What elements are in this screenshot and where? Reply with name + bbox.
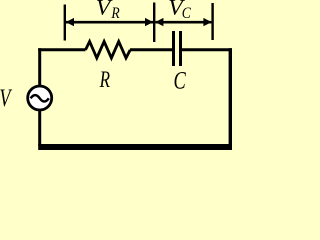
capacitor C1 right plate [179, 31, 182, 66]
label V_C [168, 0, 185, 19]
arrowhead V_C right [203, 18, 211, 26]
arrowhead V_R right [145, 18, 153, 26]
wire: right band [229, 48, 232, 150]
wire: top-right segment (capacitor to right edge) [182, 48, 232, 51]
svg-text:R: R [110, 5, 119, 22]
label C [174, 66, 187, 95]
arrow line V_C span [155, 21, 211, 24]
wire: top-middle segment (resistor to capacitor) [130, 48, 172, 51]
AC source sine wave [31, 95, 49, 101]
capacitor C1 left plate [172, 31, 175, 66]
wire: bottom band [38, 144, 232, 150]
label V (source) [0, 83, 12, 112]
arrow line V_R span [66, 21, 153, 24]
AC source V1 circle [28, 86, 52, 110]
svg-text:R: R [99, 68, 111, 93]
resistor R1 zigzag [86, 42, 131, 59]
wire: top-left segment (corner to resistor) [38, 48, 85, 51]
svg-text:C: C [174, 66, 187, 95]
arrowhead V_C left [155, 18, 163, 26]
label V_R [96, 0, 113, 19]
tick: V_R left boundary [64, 5, 66, 41]
label R [99, 68, 111, 93]
tick: V_R / V_C shared boundary [153, 3, 155, 43]
tick: V_C right boundary [211, 3, 213, 40]
wire: left lower segment (source to bottom) [38, 110, 41, 147]
arrowhead V_R left [66, 18, 74, 26]
svg-text:C: C [182, 5, 192, 22]
wire: left upper segment (corner to source) [38, 48, 41, 87]
